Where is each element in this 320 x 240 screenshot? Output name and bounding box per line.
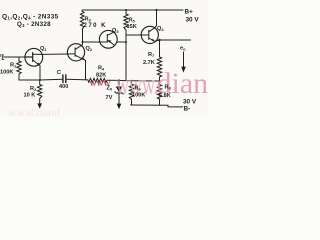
node Q4 emitter junction [158,39,160,41]
transistor Q1 [25,48,43,66]
wire mid rail to capacitor [40,78,63,81]
svg-text:R7: R7 [148,52,155,58]
svg-text:Q3: Q3 [112,28,119,34]
wire Q1 emitter down [39,66,41,80]
resistor R5 [124,10,128,30]
svg-text:270 K: 270 K [84,23,108,29]
node zener top [118,79,120,81]
svg-text:7V: 7V [106,95,113,101]
wire node B vertical to mid rail [125,35,127,81]
zener diode Z0 [118,80,120,86]
svg-text:Q3 - 2N328: Q3 - 2N328 [17,21,51,28]
ground arrow below zener [117,104,122,110]
wire rail R6 to R7/R8 node [132,80,160,82]
wire R6 bottom [131,99,133,105]
node B [125,41,127,43]
wire R7 bottom to rail [159,77,161,81]
wire Q4 collector riser [156,10,158,26]
svg-text:30 V: 30 V [186,17,200,24]
node A junction R3/Q2 collector/Q3 base [82,41,84,43]
transistor Q2 [67,42,85,61]
svg-text:R2: R2 [30,86,37,92]
svg-text:Q2: Q2 [86,46,93,52]
svg-text:15K: 15K [127,24,137,30]
node Q1 emitter rail [39,79,41,81]
svg-text:82K: 82K [96,73,106,79]
svg-text:400: 400 [59,84,68,90]
svg-text:100K: 100K [0,70,13,76]
transistor Q3 [99,30,117,48]
svg-text:Q1: Q1 [40,46,47,52]
svg-text:R4: R4 [98,66,105,72]
wire R5 bottom to Q4 base [126,30,141,35]
node R5 top [125,9,127,11]
svg-text:6.8K: 6.8K [159,93,171,99]
wire Q1 collector to Q2 base [42,53,67,55]
svg-text:C: C [57,70,61,76]
wire R8 bottom [159,99,161,105]
svg-text:R5: R5 [129,18,136,24]
wire capacitor to Q2 emitter node [66,78,88,81]
svg-text:Q4: Q4 [157,26,164,32]
svg-text:B+: B+ [185,9,194,16]
svg-text:e: e [0,53,1,59]
svg-text:B-: B- [184,106,191,113]
input terminal bracket [2,55,3,60]
svg-text:www.dianl: www.dianl [8,105,61,117]
resistor R1 [17,57,21,74]
svg-text:R8: R8 [165,85,172,91]
resistor R7 [157,40,161,77]
node Q4 collector top [155,9,157,11]
wire Q3 emitter to node B [117,41,126,43]
svg-text:100K: 100K [132,93,145,99]
ground arrow below R2 [39,99,41,105]
svg-text:10 K: 10 K [24,93,36,99]
e0 arrow annotation [183,52,185,68]
resistor R3 [80,10,84,29]
wire input ei [4,56,26,58]
svg-text:Z0: Z0 [107,86,113,92]
resistor R6 [129,81,133,99]
wire bottom rail B- [131,105,183,107]
svg-text:eo: eo [180,46,186,52]
wire R1 bottom [19,74,40,80]
svg-text:R3: R3 [85,17,92,23]
resistor R2 [38,80,42,99]
wire Q2 emitter down [85,60,87,79]
svg-text:30 V: 30 V [183,99,197,106]
svg-text:R6: R6 [135,86,142,92]
transistor Q4 [141,26,159,44]
svg-text:Q1,Q2,Q4 - 2N335: Q1,Q2,Q4 - 2N335 [2,14,59,21]
wire node A to Q3 base [83,41,101,43]
resistor R8 [157,81,161,99]
resistor R4 horizontal [88,78,107,82]
svg-text:R1: R1 [10,63,17,69]
svg-text:2.7K: 2.7K [143,60,155,66]
wire R3 to node [82,29,84,42]
wire output e0 [160,39,191,41]
wire rail zener to R6 [119,79,132,81]
capacitor C plates [63,75,66,83]
node R6 top [131,80,133,82]
wire rail R4 to zener node [107,79,119,81]
wire top rail B+ [83,9,183,11]
